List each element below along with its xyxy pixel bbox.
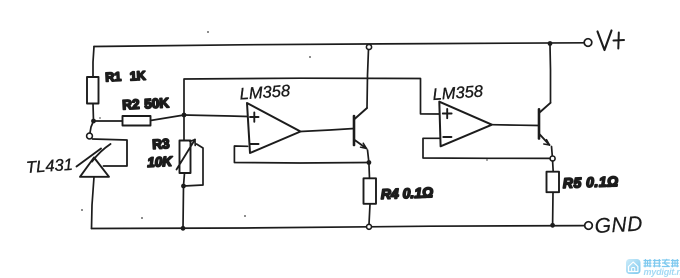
- resistor R1: [87, 77, 99, 121]
- node junction Q2 collector on top rail: [548, 41, 553, 46]
- node junction feedback / Q2 emitter / R5 (open): [550, 156, 555, 161]
- terminal GND: [585, 213, 644, 238]
- wire node A down to R3: [183, 115, 185, 141]
- wire R2 left: [94, 120, 123, 122]
- scan specks: [81, 31, 488, 219]
- watermark mydigit logo: [626, 259, 641, 274]
- terminal V+: [584, 31, 624, 51]
- svg-text:R5 0.1Ω: R5 0.1Ω: [563, 173, 619, 191]
- node junction R3 bottom / wiper loop: [181, 184, 186, 189]
- wire op-amp1 output to Q1 base: [301, 129, 355, 132]
- svg-text:R1: R1: [105, 70, 122, 85]
- resistor R5: [547, 161, 560, 225]
- svg-text:TL431: TL431: [26, 156, 74, 177]
- svg-text:10K: 10K: [147, 154, 174, 170]
- wire R2 right to node A: [151, 115, 185, 121]
- node junction R3 on bottom rail: [181, 226, 186, 231]
- label LM358 (U1): [239, 82, 291, 104]
- label R2 50K: [122, 95, 170, 112]
- svg-text:R2: R2: [122, 97, 140, 113]
- svg-text:mydigit.net: mydigit.net: [644, 267, 680, 277]
- wire op-amp2 inverting feedback loop to emitter node: [423, 138, 550, 158]
- wire top rail V+: [94, 43, 584, 47]
- wire left drop from rail to R1: [93, 47, 94, 78]
- label R5 0.1ohm: [563, 173, 619, 191]
- watermark CJK text 数码之家: [644, 259, 679, 267]
- op-amp U2 LM358: [439, 102, 492, 147]
- TL431 U3: [77, 121, 128, 229]
- label R1 1K: [105, 69, 146, 85]
- op-amp U1 LM358: [247, 103, 301, 153]
- wire op-amp2 output to Q2 base: [492, 124, 539, 127]
- transistor Q1: [354, 49, 369, 163]
- wire bottom rail GND: [92, 226, 585, 229]
- label TL431: [26, 156, 74, 177]
- watermark text mydigit.net: [644, 267, 680, 277]
- svg-text:1K: 1K: [129, 69, 146, 84]
- potentiometer R3: [177, 140, 204, 229]
- node A junction (R2 / op-amp1 + / R3 / upper wire): [182, 113, 187, 118]
- wire node A to op-amp1 + input: [184, 115, 248, 117]
- node junction R2-left on main line: [91, 119, 96, 124]
- wire op-amp1 inverting feedback loop to emitter node: [234, 146, 369, 163]
- resistor R4: [364, 163, 377, 225]
- svg-text:LM358: LM358: [432, 82, 484, 104]
- svg-text:R3: R3: [152, 136, 171, 152]
- transistor Q2: [539, 46, 552, 157]
- label R3 10K: [147, 136, 174, 170]
- node junction R4 on bottom rail (open): [367, 224, 372, 229]
- svg-text:R4 0.1Ω: R4 0.1Ω: [381, 184, 434, 202]
- resistor R2: [123, 116, 151, 126]
- wire node A up and across to op-amp2 + input: [184, 78, 439, 115]
- label R4 0.1ohm: [381, 184, 434, 202]
- node junction feedback / Q1 emitter / R4: [367, 160, 372, 165]
- label LM358 (U2): [432, 82, 484, 104]
- node junction Q1 collector on top rail (open): [366, 44, 371, 49]
- svg-text:LM358: LM358: [239, 82, 291, 104]
- svg-text:50K: 50K: [144, 95, 170, 111]
- node junction R5 on bottom rail: [550, 223, 555, 228]
- svg-text:GND: GND: [594, 213, 643, 238]
